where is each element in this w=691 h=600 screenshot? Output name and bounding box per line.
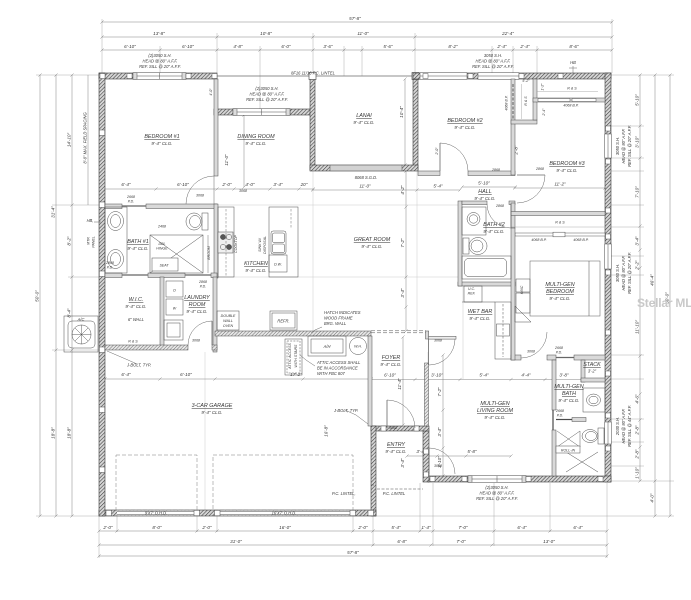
svg-text:16'X7' O.H.D.: 16'X7' O.H.D. [272,511,297,516]
svg-text:7'-0": 7'-0" [458,525,468,530]
svg-text:ENTRY: ENTRY [387,442,405,448]
svg-text:9'-4" CLG.: 9'-4" CLG. [474,196,495,201]
svg-text:(2)3050 S.H.: (2)3050 S.H. [148,53,171,58]
svg-text:2868: 2868 [495,204,504,208]
svg-text:9'-4" CLG.: 9'-4" CLG. [469,316,490,321]
svg-text:3'-6": 3'-6" [323,44,333,49]
svg-text:2'-2": 2'-2" [635,260,640,271]
svg-text:9'-4" CLG.: 9'-4" CLG. [484,415,505,420]
svg-text:Stellar MLS: Stellar MLS [637,296,691,310]
svg-text:A/H: A/H [323,344,331,349]
svg-text:2'-4": 2'-4" [496,44,507,49]
svg-text:9'X7' O.H.D.: 9'X7' O.H.D. [145,511,168,516]
svg-text:6'-10": 6'-10" [180,372,192,377]
svg-text:9'-4" CLG.: 9'-4" CLG. [245,268,266,273]
svg-text:2'-4": 2'-4" [519,44,530,49]
svg-text:4'-8": 4'-8" [233,44,243,49]
svg-text:2'-0": 2'-0" [221,182,232,187]
svg-text:WET BAR: WET BAR [468,309,493,315]
svg-text:ATTIC ACCESS: ATTIC ACCESS [288,343,292,370]
svg-text:7'-0": 7'-0" [456,539,466,544]
svg-text:HEAD @ 80" A.F.F.: HEAD @ 80" A.F.F. [143,59,178,64]
svg-text:BEDROOM #3: BEDROOM #3 [549,161,584,167]
svg-text:22'-4": 22'-4" [501,31,514,36]
svg-text:4068 B.P.: 4068 B.P. [531,238,546,242]
svg-text:SINK W/: SINK W/ [258,237,262,252]
svg-text:8'-6": 8'-6" [569,44,579,49]
svg-text:1'-4": 1'-4" [421,525,431,530]
svg-text:WITH FBC 807: WITH FBC 807 [317,371,345,376]
svg-text:2868: 2868 [535,167,544,171]
svg-text:DINING ROOM: DINING ROOM [237,134,275,140]
svg-text:R & S: R & S [555,221,565,225]
svg-text:MULTI-GEN: MULTI-GEN [554,384,583,390]
svg-text:3'-8": 3'-8" [559,373,569,378]
svg-text:HEAD @ 80" A.F.F.: HEAD @ 80" A.F.F. [250,92,285,97]
svg-text:13'-0": 13'-0" [543,539,555,544]
svg-text:31'-4": 31'-4" [51,206,56,218]
svg-text:A/C: A/C [77,317,85,322]
svg-text:(2)3050 S.H.: (2)3050 S.H. [255,86,278,91]
svg-text:6'-4": 6'-4" [517,525,527,530]
svg-text:5'-6": 5'-6" [383,44,393,49]
svg-text:PANEL: PANEL [92,236,96,248]
svg-text:6" WALL: 6" WALL [128,317,144,322]
svg-text:5'-10": 5'-10" [635,94,640,106]
svg-text:WALL: WALL [223,319,233,323]
svg-text:HEAD @ 80" A.F.F.: HEAD @ 80" A.F.F. [621,256,626,291]
svg-text:9'-4" CLG.: 9'-4" CLG. [201,410,222,415]
svg-text:5'-2": 5'-2" [522,79,530,83]
svg-text:MULTI-GEN: MULTI-GEN [480,401,509,407]
svg-text:9'-4" CLG.: 9'-4" CLG. [385,449,406,454]
svg-text:HALL: HALL [478,189,492,195]
svg-text:9'-4" CLG.: 9'-4" CLG. [186,309,207,314]
svg-text:3050 S.H.: 3050 S.H. [615,137,620,155]
svg-text:HATCH INDICATES: HATCH INDICATES [324,310,361,315]
svg-text:9'-4" CLG.: 9'-4" CLG. [454,125,475,130]
svg-text:J-BOLT, TYP.: J-BOLT, TYP. [126,363,151,368]
svg-text:3068: 3068 [389,426,397,430]
svg-text:OVEN: OVEN [223,324,234,328]
svg-text:DISPOSAL: DISPOSAL [263,236,267,254]
svg-text:HEAD @ 80" A.F.F.: HEAD @ 80" A.F.F. [476,59,511,64]
svg-text:14'-10": 14'-10" [67,133,72,148]
svg-text:2'-8": 2'-8" [635,425,640,436]
svg-text:STACK: STACK [583,362,601,368]
svg-text:4'-2": 4'-2" [400,185,405,195]
svg-text:3068: 3068 [527,350,535,354]
svg-text:8'-2": 8'-2" [448,44,458,49]
svg-text:10'-8": 10'-8" [260,31,272,36]
svg-text:D.W.: D.W. [274,263,282,267]
svg-text:10'-4": 10'-4" [399,106,404,118]
svg-text:57'-8": 57'-8" [347,550,359,555]
svg-text:57'-8": 57'-8" [349,16,361,21]
svg-text:ROOM: ROOM [189,302,206,308]
svg-text:U.C.: U.C. [468,287,475,291]
svg-text:MTR: MTR [87,237,91,245]
svg-text:3'-2": 3'-2" [588,369,597,374]
svg-text:6'-10": 6'-10" [177,182,189,187]
svg-text:9'-4" CLG.: 9'-4" CLG. [151,141,172,146]
svg-text:3'-4": 3'-4" [437,427,442,437]
svg-text:2668: 2668 [555,409,564,413]
svg-text:3'-4": 3'-4" [273,182,283,187]
svg-text:6'-10": 6'-10" [124,44,136,49]
svg-text:2'-0": 2'-0" [357,525,368,530]
svg-text:R & S: R & S [567,87,577,91]
svg-text:BATH #1: BATH #1 [127,239,148,245]
svg-text:8'-2": 8'-2" [67,236,72,246]
svg-text:1'-2": 1'-2" [541,83,545,91]
svg-text:P.D.: P.D. [200,285,207,289]
svg-text:2668: 2668 [554,346,563,350]
svg-text:2'-0": 2'-0" [435,147,439,156]
svg-text:11'-0": 11'-0" [224,154,229,166]
svg-text:18'-8": 18'-8" [67,427,72,439]
svg-text:REF. SILL @ 20" A.F.F.: REF. SILL @ 20" A.F.F. [246,97,288,102]
svg-text:9'-4" CLG.: 9'-4" CLG. [125,304,146,309]
svg-text:3050 S.H.: 3050 S.H. [615,264,620,282]
svg-text:6'-4": 6'-4" [121,372,131,377]
svg-text:MULTI-GEN: MULTI-GEN [545,282,574,288]
svg-text:6'-10": 6'-10" [182,44,194,49]
svg-text:8'-0": 8'-0" [152,525,162,530]
svg-text:HB,: HB, [87,218,94,223]
svg-text:6'-4": 6'-4" [573,525,583,530]
svg-text:6'-8": 6'-8" [397,539,407,544]
svg-text:BE IN ACCORDANCE: BE IN ACCORDANCE [317,366,358,371]
svg-text:HB: HB [570,60,576,65]
svg-text:D: D [173,289,176,293]
svg-text:46'-4": 46'-4" [650,274,655,286]
svg-text:4'-0": 4'-0" [209,88,213,96]
svg-text:3-CAR GARAGE: 3-CAR GARAGE [192,403,233,409]
svg-text:LANAI: LANAI [356,113,372,119]
svg-text:9'-4" CLG.: 9'-4" CLG. [556,168,577,173]
svg-text:3'-10": 3'-10" [431,373,443,378]
svg-text:4068 B.P.: 4068 B.P. [563,104,578,108]
svg-text:P.D.: P.D. [107,266,114,270]
svg-text:BATH #2: BATH #2 [483,222,504,228]
svg-text:KITCHEN: KITCHEN [244,261,268,267]
svg-text:3068: 3068 [239,189,247,193]
svg-text:2668: 2668 [126,195,135,199]
svg-text:3068: 3068 [434,339,442,343]
svg-text:REF. SILL @ 20" A.F.F.: REF. SILL @ 20" A.F.F. [627,125,632,167]
svg-text:REF. SILL @ 44" A.F.F.: REF. SILL @ 44" A.F.F. [627,405,632,447]
svg-text:ROLL-IN: ROLL-IN [561,449,576,453]
svg-text:11'-4": 11'-4" [397,378,402,390]
svg-text:9'-4" CLG.: 9'-4" CLG. [245,141,266,146]
svg-text:BEDROOM #2: BEDROOM #2 [447,118,482,124]
svg-text:REF. SILL @ 20" A.F.F.: REF. SILL @ 20" A.F.F. [139,64,181,69]
svg-text:BATH: BATH [562,391,576,397]
svg-text:6'-10": 6'-10" [384,373,396,378]
svg-text:REFR.: REFR. [277,319,289,324]
svg-text:3050 S.H.: 3050 S.H. [484,53,502,58]
svg-text:11'-0": 11'-0" [357,31,369,36]
svg-text:6'-4": 6'-4" [121,182,131,187]
svg-text:HEAD @ 80" A.F.F.: HEAD @ 80" A.F.F. [621,409,626,444]
svg-text:5'-4": 5'-4" [433,184,443,189]
svg-text:2868: 2868 [105,261,114,265]
svg-text:8'-0" MAX. FIELD SPACING: 8'-0" MAX. FIELD SPACING [83,112,88,164]
svg-text:3'-10": 3'-10" [635,136,640,148]
svg-text:5'-10": 5'-10" [478,181,490,186]
svg-text:3068: 3068 [196,194,204,198]
svg-text:P.C. LINTEL: P.C. LINTEL [383,491,405,496]
svg-text:4068 B.P.: 4068 B.P. [573,238,588,242]
svg-text:7'-2": 7'-2" [437,387,442,397]
svg-text:R & S: R & S [524,96,528,106]
svg-text:2'-4": 2'-4" [542,108,546,117]
svg-text:5'-4": 5'-4" [479,373,489,378]
svg-text:5'-4": 5'-4" [391,525,401,530]
svg-text:2'-0": 2'-0" [102,525,113,530]
svg-text:BROOM: BROOM [207,246,211,260]
svg-text:P.D.: P.D. [128,200,135,204]
svg-text:9'-4" CLG.: 9'-4" CLG. [361,244,382,249]
svg-text:3068: 3068 [192,339,200,343]
svg-text:11'-10": 11'-10" [635,320,640,334]
svg-text:REF.: REF. [468,292,476,296]
svg-text:16'-0": 16'-0" [279,525,291,530]
svg-text:20": 20" [300,182,308,187]
svg-text:R & S: R & S [128,340,138,344]
svg-text:LAUNDRY: LAUNDRY [184,295,210,301]
svg-text:REF. SILL @ 20" A.F.F.: REF. SILL @ 20" A.F.F. [472,64,514,69]
svg-text:2868: 2868 [198,280,207,284]
svg-text:REF. SILL @ 20" A.F.F.: REF. SILL @ 20" A.F.F. [627,252,632,294]
svg-text:9'-4" CLG.: 9'-4" CLG. [380,362,401,367]
svg-text:3'-4": 3'-4" [635,236,640,246]
svg-text:4'-0": 4'-0" [245,182,255,187]
svg-text:GREAT ROOM: GREAT ROOM [354,237,391,243]
svg-text:HEAD @ 80" A.F.F.: HEAD @ 80" A.F.F. [480,491,515,496]
svg-text:DBL: DBL [159,242,166,246]
svg-text:8068 S.G.D.: 8068 S.G.D. [355,175,378,180]
svg-text:7'-2": 7'-2" [400,238,405,248]
svg-text:18'-8": 18'-8" [51,427,56,439]
svg-text:6'-0": 6'-0" [281,44,291,49]
svg-text:W.H.: W.H. [354,345,362,349]
svg-text:31'-0": 31'-0" [230,539,242,544]
svg-text:WOOD FRAME: WOOD FRAME [324,316,353,321]
svg-text:W.I.C.: W.I.C. [129,297,144,303]
svg-text:3'-4": 3'-4" [400,288,405,298]
svg-text:2'-0": 2'-0" [201,525,212,530]
svg-text:REF. SILL @ 20" A.F.F.: REF. SILL @ 20" A.F.F. [476,496,518,501]
svg-text:SEAT: SEAT [159,264,169,268]
svg-text:13'-8": 13'-8" [153,31,165,36]
svg-text:9'-4" CLG.: 9'-4" CLG. [549,296,570,301]
svg-text:3'-4": 3'-4" [400,458,405,468]
svg-text:BEDROOM #1: BEDROOM #1 [144,134,179,140]
svg-text:4068 B.P.: 4068 B.P. [505,95,509,110]
svg-text:(2)3050 S.H.: (2)3050 S.H. [485,485,508,490]
svg-text:9'-4" CLG.: 9'-4" CLG. [353,120,374,125]
svg-text:9'-4" CLG.: 9'-4" CLG. [483,229,504,234]
svg-text:4'-4": 4'-4" [521,373,531,378]
svg-text:11'-0": 11'-0" [359,184,371,189]
svg-text:4'-6": 4'-6" [635,394,640,404]
svg-text:P.C. LINTEL,: P.C. LINTEL, [332,491,356,496]
svg-text:2030 S.H.: 2030 S.H. [615,417,620,436]
svg-text:K/NC: K/NC [520,285,524,294]
svg-text:WITH STAIRS: WITH STAIRS [294,344,298,367]
svg-text:LIVING ROOM: LIVING ROOM [477,408,513,414]
svg-text:5'-8": 5'-8" [467,449,477,454]
svg-text:BEDROOM: BEDROOM [546,289,574,295]
svg-text:1'-10": 1'-10" [635,467,640,479]
svg-text:DOUBLE: DOUBLE [221,314,236,318]
svg-text:2468: 2468 [157,225,166,229]
svg-text:3068: 3068 [434,464,442,468]
svg-text:P.D.: P.D. [556,351,563,355]
svg-text:HEAD @ 80" A.F.F.: HEAD @ 80" A.F.F. [621,129,626,164]
svg-text:2868: 2868 [491,168,500,172]
svg-text:COOKTOP: COOKTOP [234,234,238,253]
svg-text:9'-4" CLG.: 9'-4" CLG. [127,246,148,251]
svg-text:8F16 11/16 F.C. LINTEL: 8F16 11/16 F.C. LINTEL [291,71,335,76]
svg-text:4'-0": 4'-0" [650,493,655,503]
svg-text:9'-4" CLG.: 9'-4" CLG. [558,398,579,403]
svg-text:7'-10": 7'-10" [635,186,640,198]
svg-text:BRG. WALL: BRG. WALL [324,321,346,326]
svg-text:P.D.: P.D. [557,414,564,418]
svg-text:2'-8": 2'-8" [635,449,640,460]
svg-text:11'-2": 11'-2" [554,182,566,187]
svg-text:W: W [173,307,177,311]
svg-text:ATTIC ACCESS SHALL: ATTIC ACCESS SHALL [316,360,360,365]
svg-text:50'-0": 50'-0" [35,290,40,302]
svg-text:HINGE: HINGE [156,247,168,251]
svg-text:16'-8": 16'-8" [324,425,329,437]
svg-text:FOYER: FOYER [382,355,401,361]
